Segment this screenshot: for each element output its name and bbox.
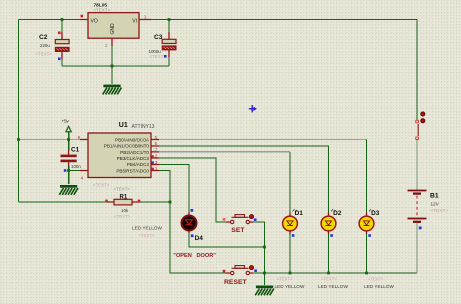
wire U1 pin1 to RESET column [159,171,226,274]
wire switch to battery [416,139,418,190]
node marker (blue origin cross) [249,105,257,112]
svg-text:ATTINY13: ATTINY13 [132,124,155,130]
LED D3 [359,209,394,289]
svg-text:GND: GND [110,23,116,35]
LED D2 [318,209,348,289]
svg-text:D2: D2 [333,210,342,217]
button SET [223,215,257,235]
svg-text:C1: C1 [71,147,80,154]
wire C3 top lead [168,20,170,40]
wire R1 row from rail [19,201,108,203]
svg-text:3: 3 [144,14,147,19]
svg-text:LED YELLOW: LED YELLOW [318,284,348,289]
node ground bottom [263,272,266,275]
capacitor C1 [61,147,82,170]
svg-text:<TEXT>: <TEXT> [93,183,110,188]
wire ground bus under regulator [62,65,169,67]
wire SET right to vertical [253,222,265,273]
node C2 top [61,18,64,21]
wire U1 pin7 to D1 column [159,151,290,153]
wires drawn in dark green [19,20,418,286]
wire D1 bottom [289,231,291,273]
wire U1 pin2 to SET [159,158,226,222]
wire D2 bottom [328,231,330,273]
node D1 bottom rail [289,272,292,275]
svg-text:2: 2 [105,43,108,48]
wire bottom rail [253,272,417,274]
ground (C1) [59,185,78,195]
resistor R1 [105,187,140,219]
node gnd bus [111,65,114,68]
svg-text:VI: VI [132,18,137,24]
svg-text:LED YELLOW: LED YELLOW [364,284,394,289]
wire C3 bottom lead [168,50,170,67]
svg-text:PB1/AIN1/OC0B/INT0: PB1/AIN1/OC0B/INT0 [104,144,150,149]
wire U1 pin3 to D4 [159,165,189,213]
wire D3 bottom [366,231,368,273]
svg-text:R1: R1 [120,194,128,200]
svg-text:4: 4 [81,176,84,181]
wire left rail vertical [18,20,20,203]
power +5v [62,118,72,132]
svg-text:PB3/CLK/ADC3: PB3/CLK/ADC3 [117,156,150,161]
wire pin4 row [69,170,80,172]
wire top rail right segment [151,19,417,21]
svg-text:D4: D4 [195,235,204,242]
regulator U2 78L05 [80,3,151,49]
node left rail pin8 [17,138,20,141]
node +5v C1 [67,138,70,141]
svg-text:12V: 12V [431,201,440,206]
svg-text:10k: 10k [121,208,129,213]
capacitor C3 [149,32,177,59]
svg-text:<TEXT>: <TEXT> [114,214,131,219]
svg-text:C2: C2 [39,34,48,41]
svg-text:<TEXT>: <TEXT> [139,233,155,238]
svg-text:RESET: RESET [224,279,248,286]
svg-text:+5v: +5v [62,118,70,123]
svg-text:<TEXT>: <TEXT> [431,208,449,213]
svg-text:B1: B1 [430,193,439,200]
svg-text:PB2/ADC1/T0: PB2/ADC1/T0 [120,150,149,155]
wire U1 pin6 to D2 column [159,146,329,216]
node D3 bottom rail [365,272,368,275]
node D2 bottom rail [327,272,330,275]
node R1 RESET column [169,201,172,204]
battery B1 [408,191,449,230]
wire U1 pin5 to D3 column [159,139,367,141]
svg-text:<TEXT>: <TEXT> [321,276,337,281]
node D4 SET vertical [263,246,266,249]
capacitor C2 [36,32,70,61]
svg-text:100n: 100n [71,164,81,169]
svg-text:VO: VO [91,18,98,24]
svg-text:LED YELLOW: LED YELLOW [132,226,162,231]
svg-text:220u: 220u [40,43,50,48]
node C1 pin4 [67,169,70,172]
svg-text:C3: C3 [154,34,163,41]
node C3 top [168,18,171,21]
button RESET [223,266,257,287]
wire C2 bottom lead [61,52,63,67]
svg-text:"OPEN DOOR": "OPEN DOOR" [173,253,216,259]
wire right rail top [416,20,418,121]
svg-text:PB0/AIN0/OC0A: PB0/AIN0/OC0A [115,137,150,142]
LED D1 [275,209,305,289]
svg-text:<TEXT>: <TEXT> [150,54,167,59]
svg-text:LED YELLOW: LED YELLOW [275,284,305,289]
switch on right rail [416,112,425,140]
ground (regulator) [103,85,122,95]
op IC U1 ATTINY13 [64,122,159,187]
wire ground stem bottom [264,273,266,285]
wire C2 top lead [61,20,63,40]
wire +5v arrow stem [68,131,70,150]
wire +5v to pin8 row [19,139,81,141]
LED D4 [132,209,203,242]
ground (bottom) [255,286,274,296]
svg-text:PB5/RST/ADC0: PB5/RST/ADC0 [116,168,149,173]
svg-text:D1: D1 [295,210,304,217]
svg-text:SET: SET [231,227,245,234]
svg-text:<TEXT>: <TEXT> [94,7,111,12]
svg-text:<TEXT>: <TEXT> [114,187,131,192]
wire top rail left segment [19,19,81,21]
svg-text:PB4/ADC2: PB4/ADC2 [127,162,150,167]
wire R1 to junction [140,201,170,203]
wire C1 bottom to ground [68,166,70,184]
svg-text:<TEXT>: <TEXT> [368,276,384,281]
wire battery to bottom rail [416,223,418,273]
wire regulator gnd stem [111,46,113,84]
svg-text:<TEXT>: <TEXT> [36,52,53,57]
svg-text:U1: U1 [119,122,128,129]
svg-text:<TEXT>: <TEXT> [277,276,293,281]
svg-text:D3: D3 [371,210,380,217]
wire D4 bottom to node [189,231,265,247]
